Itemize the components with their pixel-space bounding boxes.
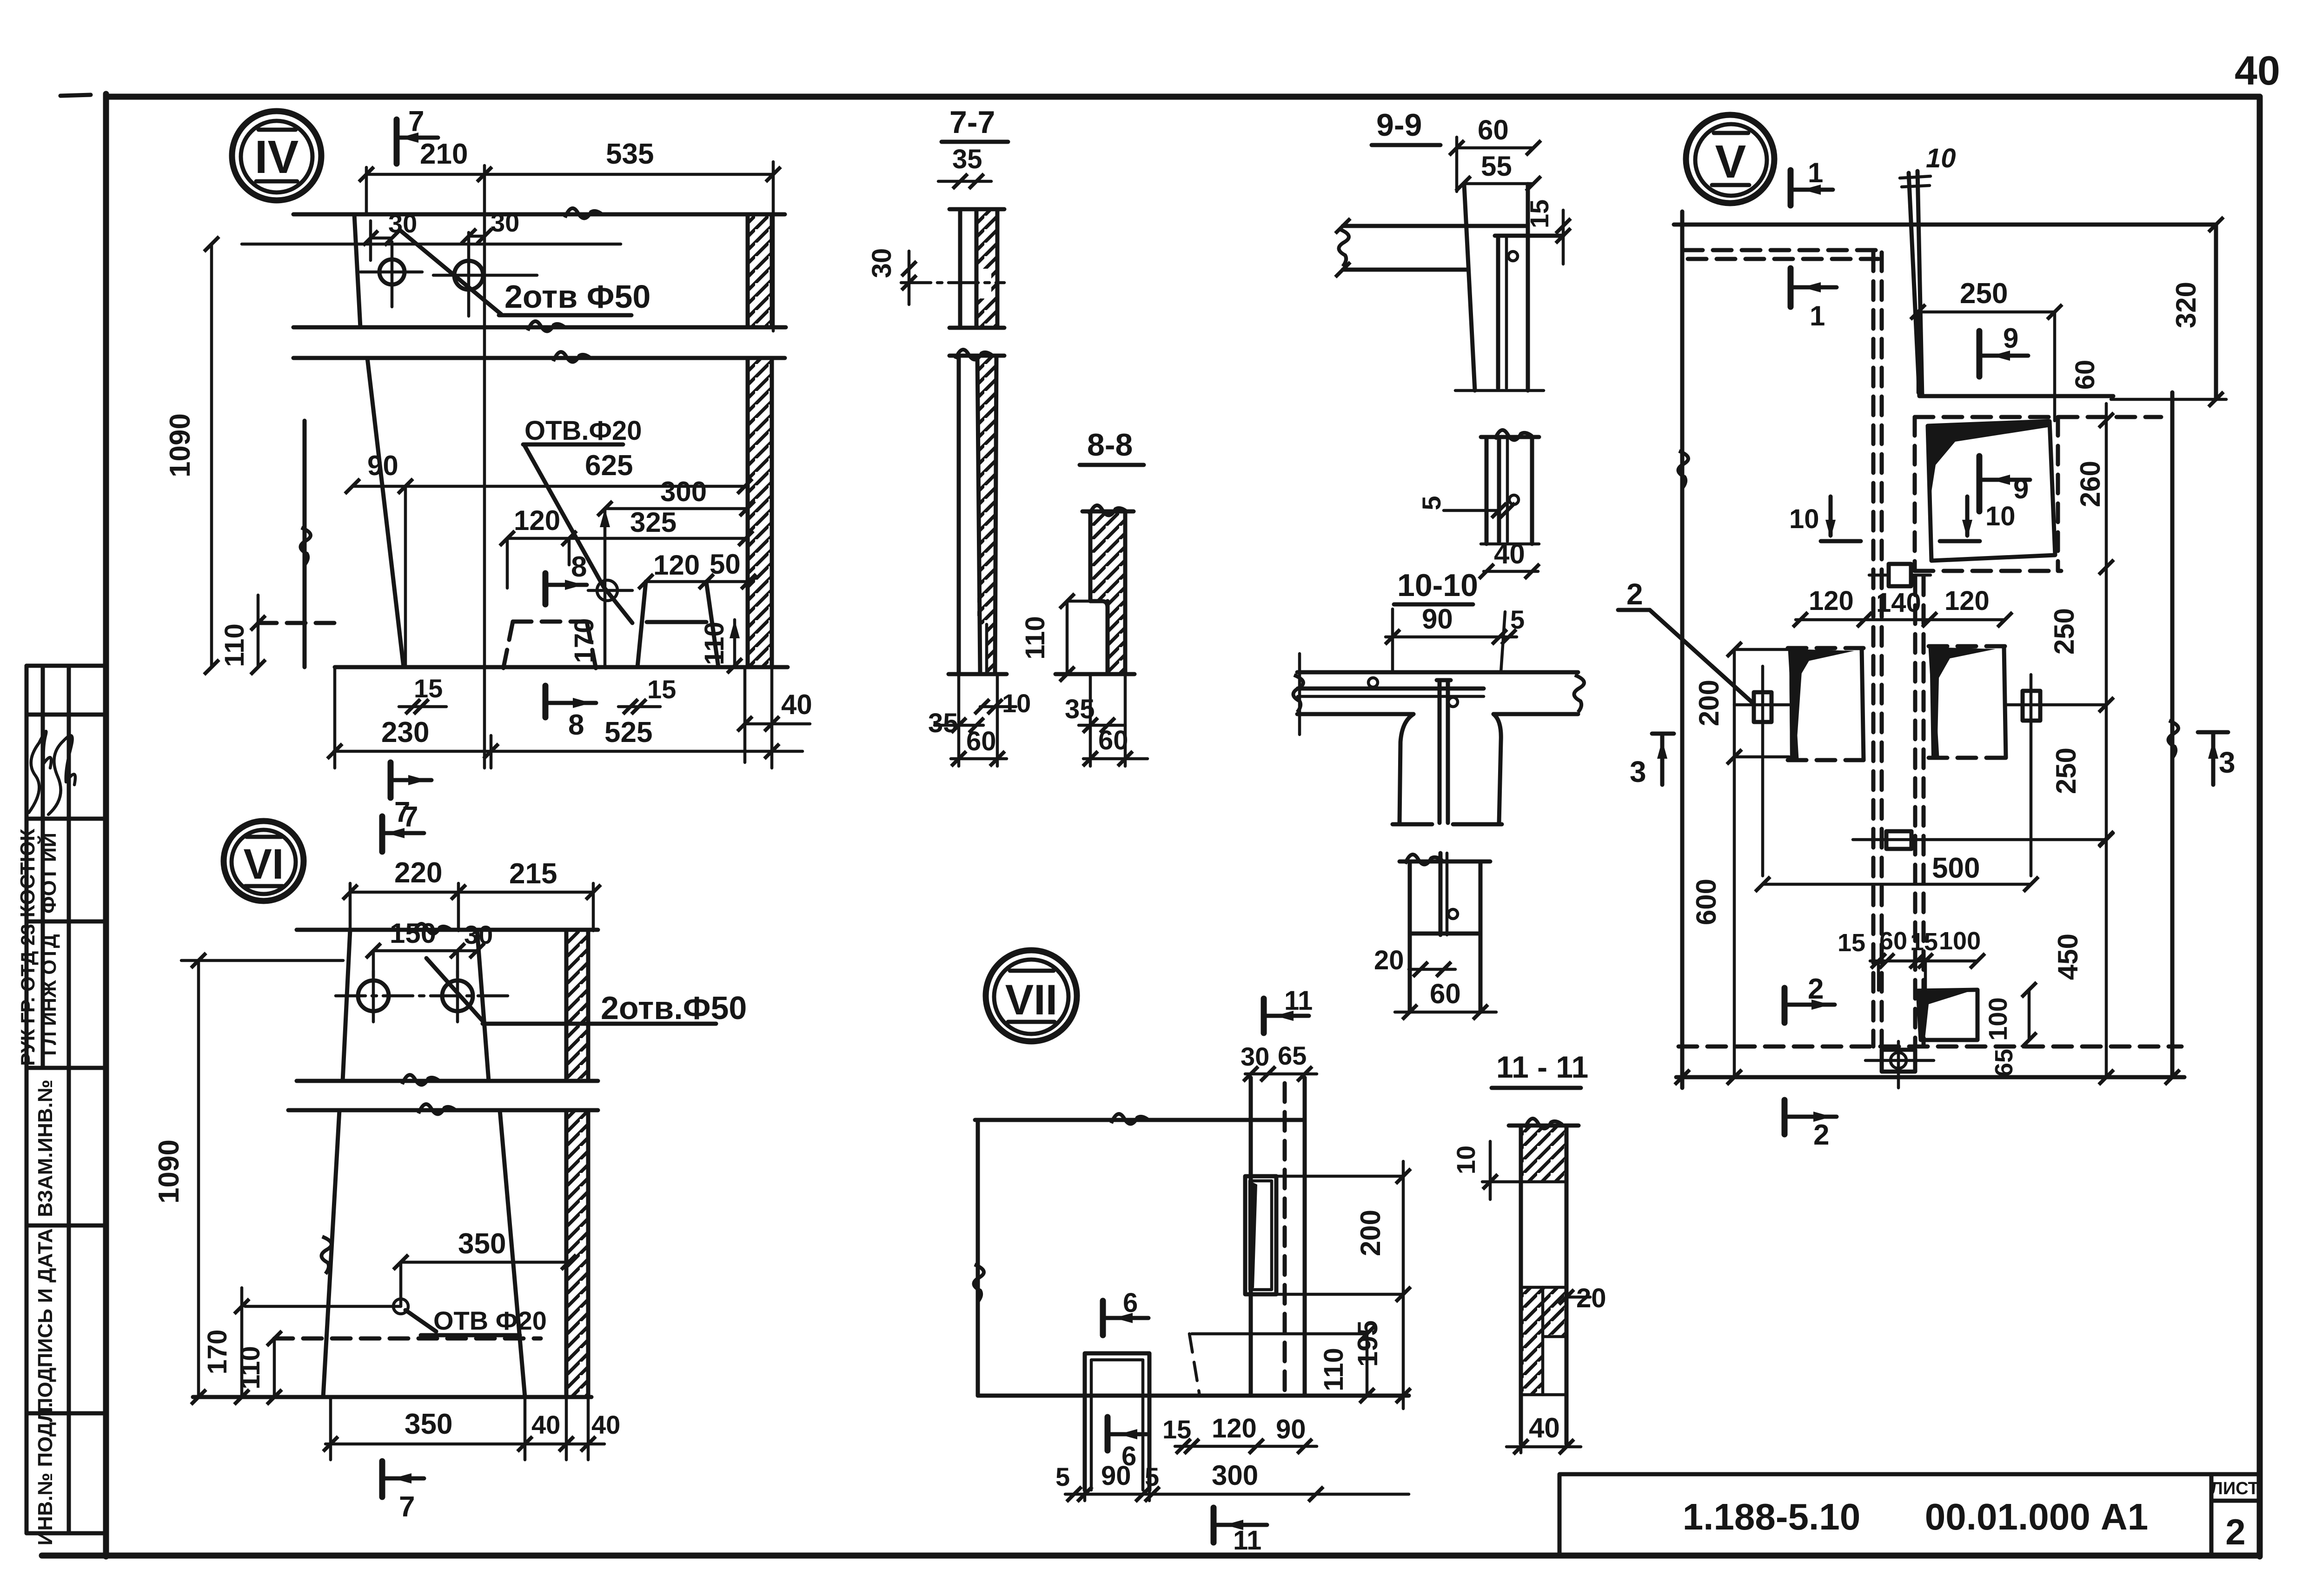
svg-text:60: 60 [2070, 360, 2100, 390]
anchor plate left (V) [1734, 666, 1789, 876]
svg-text:110: 110 [1319, 1348, 1349, 1391]
svg-text:ЛИСТ: ЛИСТ [2210, 1479, 2259, 1498]
signature squiggles [29, 731, 51, 813]
dim 40 (11-11 bottom) [1506, 1412, 1581, 1454]
section flag 8 lower (IV) [545, 686, 596, 741]
dashed hidden lines top-left (V) [1684, 250, 1924, 1046]
dim 200 / 195 (VII) [1278, 1161, 1411, 1409]
svg-text:90: 90 [1422, 603, 1453, 635]
section flag 7 top (VI) [382, 801, 424, 852]
dim line 210 / 535 (IV top) [359, 138, 781, 331]
svg-text:00.01.000 А1: 00.01.000 А1 [1925, 1496, 2148, 1537]
section flag 7 top (IV) [397, 106, 468, 170]
svg-text:11 - 11: 11 - 11 [1496, 1050, 1588, 1084]
svg-text:5: 5 [1055, 1462, 1070, 1491]
VII channel [1085, 1353, 1149, 1490]
svg-text:7: 7 [399, 1491, 415, 1523]
svg-text:7-7: 7-7 [949, 105, 995, 140]
svg-text:250: 250 [1960, 278, 2008, 310]
hole 2 (IV, Ф50) [433, 232, 537, 316]
svg-text:120: 120 [1809, 586, 1854, 616]
svg-text:VII: VII [1005, 976, 1057, 1024]
svg-text:1090: 1090 [164, 413, 196, 477]
dim 600 (V left) [1691, 757, 1742, 1085]
svg-text:ПОДПИСЬ И ДАТА: ПОДПИСЬ И ДАТА [34, 1228, 57, 1412]
section flag 7 bottom (VI) [382, 1461, 424, 1523]
svg-text:2отв.Ф50: 2отв.Ф50 [601, 990, 747, 1026]
svg-text:2: 2 [1808, 973, 1824, 1005]
svg-text:30: 30 [464, 920, 493, 949]
svg-text:535: 535 [606, 138, 654, 170]
9-9 slab [1335, 219, 1528, 277]
svg-text:170: 170 [202, 1330, 232, 1375]
V panel outline [1674, 212, 2226, 1088]
dim 1090 (IV) [164, 237, 219, 675]
svg-text:10: 10 [1926, 143, 1956, 173]
svg-text:3: 3 [2219, 746, 2236, 779]
svg-text:40: 40 [1494, 538, 1525, 570]
section flag 8 upper (IV) [545, 551, 587, 604]
svg-text:110: 110 [219, 623, 250, 667]
svg-text:10-10: 10-10 [1397, 568, 1478, 603]
9-9 lower broken piece [1481, 430, 1539, 544]
svg-text:120: 120 [1212, 1413, 1257, 1444]
svg-text:210: 210 [420, 138, 468, 170]
svg-text:600: 600 [1691, 879, 1722, 925]
dashed frame around upper window (V) [1915, 417, 2161, 571]
section flag 6 upper (VII) [1103, 1288, 1148, 1335]
dim 10 (11-11) [1451, 1141, 1521, 1199]
svg-text:10: 10 [1985, 501, 2016, 531]
dims 15 60 15 100 (V bottom window) [1838, 927, 1985, 990]
dim 120 / 50 (IV socket) [638, 549, 756, 589]
svg-text:ОТВ.Ф20: ОТВ.Ф20 [524, 416, 642, 446]
svg-text:15: 15 [1838, 929, 1865, 957]
dim 30 / 65 (VII) [1241, 1041, 1317, 1081]
svg-text:120: 120 [514, 505, 560, 536]
dim 15 (9-9) [1525, 199, 1571, 264]
hole 1 (IV, Ф50) [360, 242, 422, 307]
view circle VII [986, 950, 1077, 1041]
svg-text:350: 350 [405, 1408, 452, 1440]
svg-text:60: 60 [1430, 978, 1461, 1009]
section title 8-8 [1080, 427, 1144, 465]
connector plate mid (V) [1869, 564, 1931, 586]
dim 1090 (VI) [153, 953, 343, 1404]
dim 350 (VI mid) [393, 1228, 576, 1306]
svg-text:20: 20 [1374, 945, 1404, 975]
section flag 11 bottom (VII) [1214, 1508, 1267, 1556]
svg-text:110: 110 [235, 1346, 265, 1390]
svg-text:120: 120 [1944, 586, 1990, 616]
svg-text:7: 7 [402, 801, 418, 833]
dim 230 / 525 (IV bottom) [327, 667, 803, 768]
svg-text:V: V [1715, 136, 1746, 188]
30 offset dims (IV holes) [363, 208, 519, 260]
svg-text:15: 15 [1162, 1415, 1191, 1444]
label 2 with leader (V) [1618, 577, 1754, 704]
svg-text:20: 20 [1576, 1283, 1606, 1313]
dims 35 / 10 / 60 (7-7 bottom) [928, 674, 1031, 766]
svg-text:IV: IV [255, 131, 299, 183]
svg-text:2: 2 [2225, 1511, 2245, 1552]
svg-text:100: 100 [1983, 997, 2012, 1040]
hole Ф20 (IV) [588, 509, 632, 667]
svg-text:1: 1 [1808, 157, 1823, 188]
svg-text:15: 15 [647, 675, 676, 704]
svg-text:40: 40 [1529, 1412, 1560, 1444]
svg-text:5: 5 [1145, 1462, 1159, 1491]
svg-text:300: 300 [660, 476, 707, 507]
dim 5 (9-9 plate) [1417, 496, 1515, 518]
VII outline [974, 1078, 1409, 1396]
svg-text:11: 11 [1233, 1525, 1261, 1556]
svg-text:320: 320 [2170, 282, 2202, 328]
11-11 bar [1509, 1119, 1579, 1444]
svg-text:9: 9 [2003, 323, 2018, 354]
svg-text:15: 15 [1910, 928, 1938, 956]
dim 110 (VI) [235, 1331, 282, 1404]
dim 15 / 120 / 90 (VII) [1162, 1413, 1317, 1454]
svg-text:2: 2 [1813, 1119, 1829, 1151]
svg-text:250: 250 [2049, 608, 2080, 655]
left title strip [27, 666, 106, 1533]
leader 2отв.Ф50 (VI) [426, 958, 747, 1026]
dim 250 (V top) [1911, 278, 2062, 421]
dim 120 / 325 (IV) [500, 505, 753, 588]
dashed recess (IV) [503, 622, 596, 669]
section flag 7 bottom (IV) [391, 762, 431, 828]
socket profile (IV) [637, 582, 718, 667]
svg-text:8: 8 [568, 709, 584, 741]
title block bottom right [1559, 1474, 2260, 1556]
dim 20 (11-11) [1559, 1283, 1606, 1313]
section 10 cut sliver (V top) [1900, 143, 1956, 396]
svg-text:5: 5 [1510, 605, 1525, 634]
svg-text:220: 220 [394, 857, 442, 889]
dim 60 (V right) [2070, 360, 2114, 428]
1090 top reference line [242, 243, 621, 246]
svg-text:ВЗАМ.ИНВ.№: ВЗАМ.ИНВ.№ [34, 1079, 57, 1217]
10-10 slab [1293, 654, 1584, 735]
svg-text:150: 150 [390, 918, 436, 949]
section flag 1 top (V) [1791, 157, 1833, 205]
section title 10-10 [1394, 568, 1478, 604]
dim 300 (IV) [597, 476, 755, 527]
section flag 9 lower (V) [1979, 456, 2030, 511]
svg-text:15: 15 [1525, 199, 1554, 228]
dim 40 (9-9 lower) [1479, 538, 1539, 579]
svg-text:ИНВ.№ ПОДЛ.: ИНВ.№ ПОДЛ. [34, 1402, 57, 1545]
svg-text:450: 450 [2052, 934, 2083, 980]
svg-text:7: 7 [408, 106, 424, 138]
9-9 embedded channel plate [1495, 236, 1563, 388]
svg-text:2отв Ф50: 2отв Ф50 [504, 278, 650, 315]
bottom window opening (V) [1918, 982, 2037, 1047]
svg-text:35: 35 [928, 708, 958, 738]
svg-text:100: 100 [1939, 927, 1981, 955]
svg-text:2: 2 [1626, 577, 1643, 611]
svg-text:350: 350 [458, 1228, 506, 1260]
svg-text:КОСТЮК: КОСТЮК [16, 828, 39, 917]
svg-text:260: 260 [2075, 461, 2106, 507]
dim 55 (9-9) [1456, 151, 1541, 191]
svg-text:60: 60 [1879, 927, 1907, 955]
10-10 lower broken bar [1400, 853, 1490, 1012]
section flag 3 left (V) [1630, 734, 1674, 788]
svg-text:40: 40 [531, 1410, 560, 1439]
svg-text:500: 500 [1932, 852, 1980, 884]
small dim 15 right (IV) [618, 675, 676, 714]
svg-text:40: 40 [591, 1410, 620, 1439]
dim 120 / 140 / 120 (V) [1793, 586, 2012, 627]
dim 60 (10-10 lower) [1395, 978, 1496, 1020]
dim 350 / 40 / 40 (VI bottom) [323, 1397, 620, 1460]
dim 150 / 30 (VI holes) [366, 918, 493, 976]
svg-text:30: 30 [491, 208, 519, 237]
section flag 3 right (V) [2198, 732, 2236, 785]
hole Ф20 (VI) [245, 1299, 547, 1335]
svg-text:625: 625 [585, 450, 633, 482]
svg-text:8: 8 [571, 551, 587, 583]
section flag 2 mid (V) [1785, 973, 1835, 1023]
anchor plate right (V) [2006, 675, 2106, 876]
section flag 6 lower (VII) [1108, 1417, 1147, 1471]
dashed level line (VI) [274, 1337, 541, 1341]
svg-text:ОТВ Ф20: ОТВ Ф20 [433, 1306, 547, 1335]
small dim 15 left (IV) [399, 674, 446, 714]
bottom connector with circle (V) [1865, 1041, 1934, 1088]
svg-text:325: 325 [630, 507, 677, 538]
svg-text:9-9: 9-9 [1376, 107, 1422, 143]
svg-text:65: 65 [1278, 1041, 1307, 1070]
dim 110 (8-8) [1020, 594, 1090, 682]
holes Ф50 (VI) [336, 971, 508, 1022]
panel VI top strip [297, 924, 598, 1085]
svg-text:110: 110 [699, 622, 730, 665]
VII pocket [1245, 1176, 1276, 1294]
bottom edge ticks (V) [1675, 1070, 2180, 1085]
panel IV top strip [293, 208, 786, 331]
dim 110 (VII) [1192, 1326, 1374, 1403]
svg-text:110: 110 [1020, 616, 1050, 660]
svg-text:30: 30 [867, 248, 897, 278]
svg-text:300: 300 [1212, 1460, 1258, 1491]
svg-text:90: 90 [1276, 1414, 1306, 1444]
dims 35 / 60 (8-8 bottom) [1065, 674, 1148, 766]
svg-text:VI: VI [244, 841, 284, 888]
svg-text:250: 250 [2050, 748, 2082, 794]
svg-text:40: 40 [781, 689, 812, 720]
dim 5 / 90 / 5 / 300 (VII bottom) [1055, 1460, 1409, 1502]
svg-text:15: 15 [414, 674, 443, 703]
dim 220 / 215 (VI top) [343, 857, 601, 931]
svg-text:65: 65 [1990, 1049, 2018, 1077]
panel VI bottom strip [193, 1104, 598, 1397]
view circle VI [224, 821, 304, 901]
dim 35 (7-7 top) [938, 144, 991, 189]
section flag 1 mid (V) [1791, 268, 1837, 331]
10-10 embedded plate [1298, 678, 1484, 707]
section flag 9 upper (V) [1979, 323, 2028, 377]
svg-text:200: 200 [1693, 680, 1725, 726]
dim 40 (IV bar width) [737, 667, 812, 768]
svg-text:РУК ГР. ОТД 23: РУК ГР. ОТД 23 [17, 924, 39, 1066]
10-10 rib [1393, 714, 1502, 824]
svg-text:9: 9 [2013, 473, 2029, 504]
section title 9-9 [1372, 107, 1440, 145]
svg-text:200: 200 [1355, 1210, 1386, 1256]
9-9 wall [1455, 184, 1544, 391]
svg-text:60: 60 [1098, 725, 1128, 755]
centerline x=1042 through panel (section 7 cut) [483, 166, 486, 768]
section title 11-11 [1492, 1050, 1588, 1088]
right window opening (V) [1929, 646, 2006, 758]
connector plate mid-lower (V) [1853, 831, 2114, 849]
upper window opening (V) [1928, 419, 2055, 561]
svg-text:120: 120 [653, 550, 700, 581]
dim 110 right (IV socket) [699, 620, 742, 673]
svg-text:90: 90 [1101, 1461, 1131, 1491]
dim 30 (7-7) [867, 248, 1004, 305]
svg-text:1.188-5.10: 1.188-5.10 [1683, 1496, 1861, 1537]
dim 500 (V) [1755, 852, 2038, 892]
10-10 vertical anchor plate [1437, 680, 1451, 823]
svg-text:140: 140 [1876, 588, 1921, 618]
svg-text:90: 90 [367, 450, 398, 481]
svg-text:5: 5 [1417, 496, 1446, 510]
svg-text:525: 525 [604, 716, 652, 748]
dim 170 (VI) [202, 1288, 249, 1404]
8-8 hatched bar [1055, 505, 1135, 674]
svg-text:1: 1 [1810, 300, 1825, 331]
panel IV bottom strip [293, 352, 788, 667]
section flag 2 bottom (V) [1785, 1100, 1837, 1151]
right dim chain (V) [2049, 404, 2114, 1085]
svg-text:50: 50 [710, 549, 741, 580]
dim 200 (V left) [1693, 642, 1789, 764]
section title 7-7 [942, 105, 1008, 142]
svg-text:40: 40 [2235, 47, 2280, 93]
svg-text:10: 10 [1002, 689, 1031, 718]
left window opening (V) [1788, 648, 1864, 760]
dashed bottom band (V) [1679, 1045, 2182, 1049]
7-7 upper piece [949, 209, 1004, 328]
view circle V [1686, 115, 1774, 203]
dim 90 / 625 (IV) [345, 450, 752, 667]
svg-text:ГЛ ИНЖ ОТД: ГЛ ИНЖ ОТД [38, 934, 60, 1055]
svg-text:230: 230 [381, 716, 429, 748]
section flag 10 right (V) [1940, 497, 2016, 541]
dim 20 (10-10 lower) [1374, 945, 1455, 977]
svg-text:6: 6 [1123, 1288, 1138, 1318]
7-7 lower piece [949, 350, 1007, 674]
svg-text:30: 30 [1241, 1042, 1269, 1071]
svg-text:35: 35 [952, 144, 982, 174]
svg-text:3: 3 [1630, 755, 1646, 788]
dim 90 / 5 (10-10) [1385, 603, 1525, 672]
svg-text:ФОТ ИЙ: ФОТ ИЙ [37, 833, 60, 914]
svg-text:55: 55 [1481, 151, 1512, 182]
svg-text:10: 10 [1789, 504, 1819, 534]
view circle IV [232, 111, 321, 200]
svg-text:1090: 1090 [153, 1139, 185, 1204]
svg-text:215: 215 [509, 858, 557, 890]
leader 2отв Ф50 (IV) [400, 230, 650, 315]
dim 60 (9-9) [1449, 114, 1541, 192]
svg-text:11: 11 [1284, 986, 1313, 1016]
leader ОТВ.Ф20 (IV) [523, 416, 642, 623]
section flag 10 left (V) [1789, 497, 1861, 541]
svg-text:10: 10 [1451, 1146, 1480, 1174]
svg-text:60: 60 [1478, 114, 1509, 146]
svg-text:60: 60 [966, 726, 996, 756]
section flag 11 top (VII) [1264, 986, 1313, 1033]
svg-text:8-8: 8-8 [1087, 427, 1133, 463]
dashed level line + dim 110 left (IV) [219, 595, 342, 675]
